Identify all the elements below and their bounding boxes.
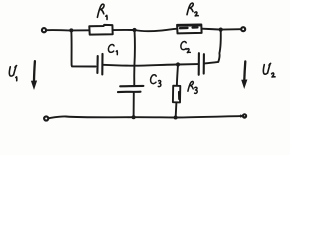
wire: input terminal to node A xyxy=(47,29,71,31)
capacitor C1 xyxy=(97,54,102,75)
wire: node A down to C1 elbow xyxy=(71,30,95,66)
wire: node B to R2 xyxy=(135,29,177,31)
label V2 (output voltage) xyxy=(263,63,275,77)
resistor R3 xyxy=(173,86,180,103)
label C1 xyxy=(108,45,117,55)
wire: bottom rail xyxy=(49,116,242,118)
label R2 xyxy=(187,3,198,16)
label C2 xyxy=(181,42,190,53)
node C (junction R2 / C2 branch / output) xyxy=(219,28,223,32)
wire: node A to R1 xyxy=(71,29,89,31)
label R1 xyxy=(97,4,107,19)
wire: C1 right plate to R3 tap node D (crosses C3 branch) xyxy=(103,65,176,66)
input terminal (top-left) xyxy=(42,28,46,32)
output terminal (top-right) xyxy=(241,27,245,31)
node B (junction R1 / R2 / C3 branch) xyxy=(132,28,136,32)
bottom terminal (bottom-left) xyxy=(44,116,48,120)
label R3 xyxy=(188,81,197,93)
arrow V2 (output voltage, down) xyxy=(241,61,247,89)
wire: C3 bottom plate down to bottom rail node E xyxy=(133,92,135,116)
capacitor C3 xyxy=(118,86,143,92)
capacitor C2 xyxy=(199,53,204,75)
resistor R1 xyxy=(89,25,112,35)
resistor R2 xyxy=(177,25,202,34)
wire: R2 to node C xyxy=(202,28,219,31)
wire: R1 to node B xyxy=(113,29,133,31)
bottom-right rail end terminal xyxy=(240,113,247,118)
wire: node C to output terminal xyxy=(221,28,241,30)
wire: R3 down to bottom rail node F xyxy=(175,103,178,117)
wire: node B down to C3 top plate (centre vertical) xyxy=(133,30,136,85)
node F (bottom rail below R3) xyxy=(174,116,178,120)
wire: node D down to R3 xyxy=(177,65,178,86)
wire: node D to C2 left plate xyxy=(178,63,198,65)
arrow V1 (input voltage, down) xyxy=(31,61,37,90)
node E (bottom rail below C3) xyxy=(132,115,136,119)
node D (junction C1-C2 wire / R3) xyxy=(176,62,180,66)
wire: C2 right plate to riser up to node C xyxy=(204,30,220,63)
label U1 (input voltage) xyxy=(9,66,16,81)
label C3 xyxy=(151,75,161,87)
node A (junction input / R1 / C1 branch) xyxy=(69,28,73,32)
